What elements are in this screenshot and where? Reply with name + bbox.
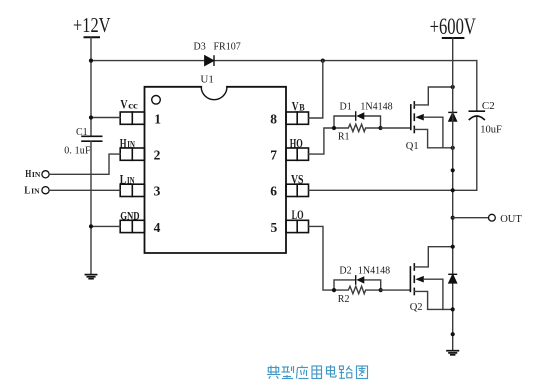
svg-text:3: 3 [154,184,161,199]
svg-text:R2: R2 [338,294,350,305]
node junction VS rail [451,188,455,192]
wire Vcc to +12V rail [91,117,120,119]
diode body D-Q1 [449,112,457,121]
node junction GND [89,224,93,228]
node junction VB riser [321,59,325,63]
node OUT terminal [489,214,496,221]
svg-text:+12V: +12V [73,13,111,37]
wire ground rail lower segment [90,141,92,274]
node junction network2 left [332,288,336,292]
svg-text:2: 2 [154,148,161,163]
svg-text:D2: D2 [339,265,351,276]
wire gate Q1 [381,127,411,129]
pin Vcc box 1 [120,112,144,124]
svg-text:U1: U1 [200,73,213,85]
resistor R2 [334,286,381,293]
wire Q1 body arrow [415,114,424,121]
node junction Vcc [89,115,93,119]
svg-text:10uF: 10uF [480,125,502,136]
svg-text:1N4148: 1N4148 [360,102,392,113]
pin LO box 5 [286,220,309,232]
svg-text:4: 4 [154,220,161,235]
node +12V supply bar [85,36,100,38]
node junction Q1 drain [451,85,455,89]
svg-text:6: 6 [270,184,277,199]
node junction OUT [451,216,455,220]
wire VB to bootstrap rail [309,61,323,118]
svg-text:L: L [120,172,127,187]
wire LIN input [49,189,120,191]
pin LIN box 3 [120,184,144,196]
transistor Q2 [410,264,414,295]
wire Q1 drain [414,87,452,105]
svg-text:1: 1 [154,111,161,126]
wire Q1 source [414,129,452,147]
svg-text:7: 7 [270,148,277,163]
wire Q2 source [414,291,452,309]
node junction network1 right [378,126,382,130]
caption 典型应用电路图 (drawn strokes) [267,365,368,379]
svg-text:GND: GND [120,208,140,222]
node junction network1 left [332,126,336,130]
pin VB box 8 [286,112,309,124]
node junction +12V/bootstrap [89,59,93,63]
svg-text:D1: D1 [340,102,352,113]
wire VS to C2 bottom [309,117,477,191]
capacitor C2 [469,111,484,119]
pin HO box 7 [286,148,309,160]
pin VS box 6 [286,184,309,196]
pin HIN box 2 [120,148,144,160]
svg-text:OUT: OUT [500,214,522,225]
svg-text:C1: C1 [76,127,88,138]
node junction Q2 drain [451,245,455,249]
node junction Q2 source [451,307,455,311]
wire Q2 drain [414,247,452,267]
wire bootstrap to C2 top [476,61,478,112]
svg-text:IN: IN [32,170,41,179]
IC U1 body [145,87,287,253]
diode D3 [205,56,214,65]
svg-text:1N4148: 1N4148 [358,265,390,276]
svg-text:IN: IN [31,187,40,196]
svg-text:FR107: FR107 [214,41,241,52]
wire Q2 body arrow [415,276,424,283]
svg-text:Q1: Q1 [406,141,419,152]
node HIN input terminal [42,171,49,178]
wire bootstrap top rail [91,60,205,62]
svg-text:+600V: +600V [430,14,476,40]
wire +12V rail upper segment [90,37,92,136]
wire HO to gate network [309,128,335,154]
diode D1 branch [334,116,355,128]
svg-text:H: H [120,135,127,150]
pin GND box 4 [120,220,144,232]
wire +600V rail [452,38,454,350]
svg-text:8: 8 [270,111,277,126]
diode D2 branch [334,280,355,290]
svg-text:LO: LO [292,208,304,222]
node junction network2 right [379,288,383,292]
node dot rail 334 [451,332,455,336]
svg-text:IN: IN [127,140,135,150]
transistor Q1 [411,102,415,133]
wire HIN input [49,154,120,174]
wire gate Q2 [381,289,411,291]
svg-text:cc: cc [128,101,138,111]
wire GND pin to rail [91,225,120,227]
capacitor C1 [82,136,102,141]
svg-text:IN: IN [127,177,135,187]
svg-text:Q2: Q2 [410,302,423,313]
svg-text:R1: R1 [338,132,350,143]
svg-text:C2: C2 [482,100,495,112]
svg-text:HO: HO [290,136,303,150]
svg-text:L: L [24,186,30,197]
node LIN input terminal [42,187,49,194]
wire OUT [453,217,489,219]
ground (left) [85,275,96,279]
svg-text:0. 1uF: 0. 1uF [64,146,91,157]
svg-text:V: V [292,99,299,114]
pin 1 indicator circle [152,96,161,105]
svg-text:B: B [299,104,305,114]
resistor R1 [334,124,381,131]
diode body D-Q2 [449,274,457,283]
svg-text:H: H [25,169,31,180]
ground (right) [447,351,458,355]
svg-text:D3: D3 [194,41,206,52]
svg-text:V: V [120,96,128,111]
node junction Q1 source [451,146,455,150]
node dot rail 170 [451,168,455,172]
node +600V supply bar [443,37,464,39]
svg-text:5: 5 [271,220,278,235]
wire LO to gate network 2 [309,226,335,290]
svg-text:VS: VS [291,173,304,187]
